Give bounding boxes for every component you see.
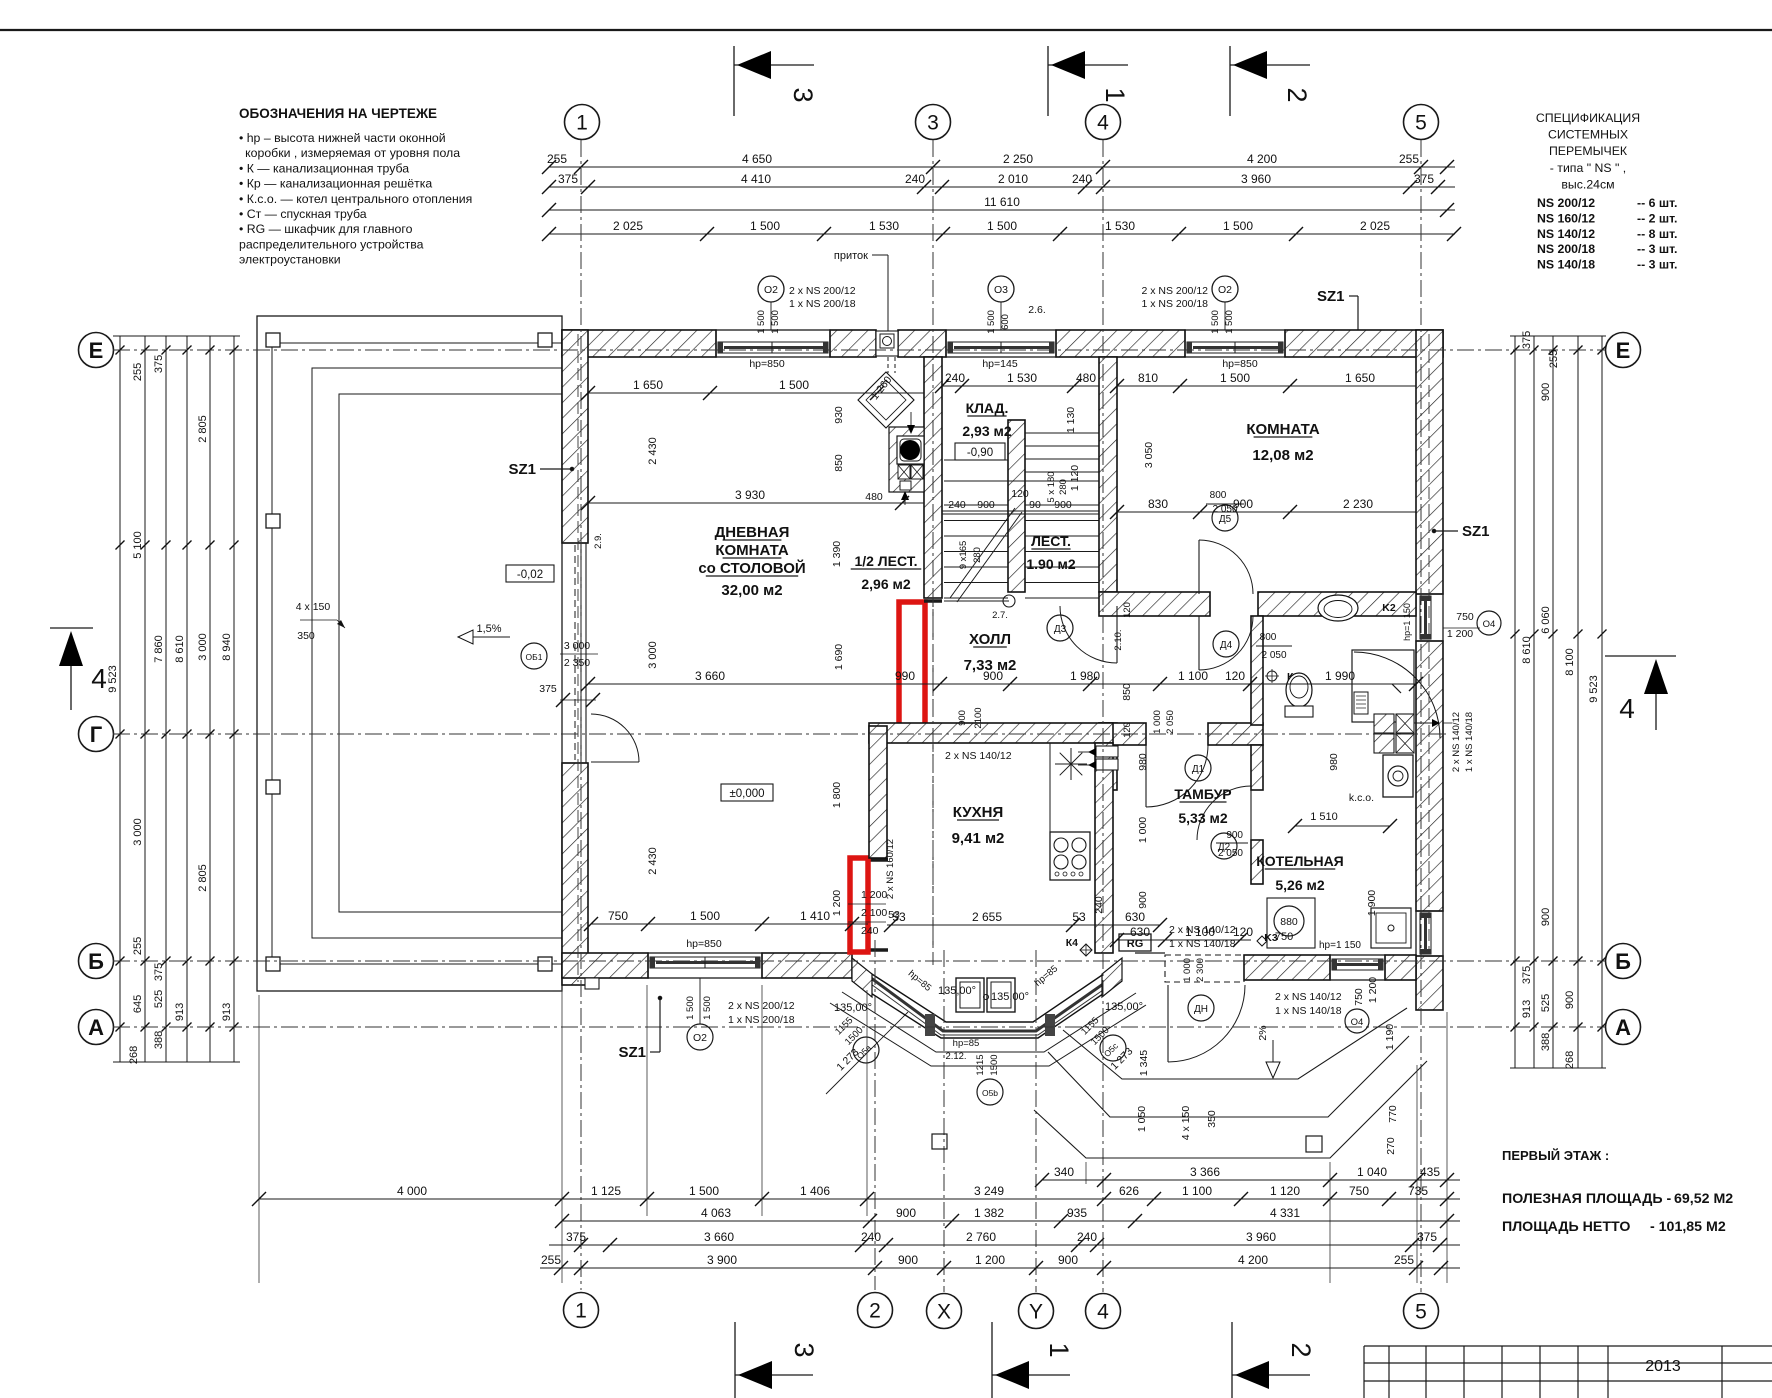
title block table xyxy=(1364,1346,1772,1398)
living room dims bottom xyxy=(584,782,868,950)
svg-text:240: 240 xyxy=(1072,172,1092,186)
svg-text:ЛЕСТ.: ЛЕСТ. xyxy=(1031,533,1071,549)
svg-text:X: X xyxy=(937,1301,951,1324)
bottom dimension row A xyxy=(1042,1179,1460,1181)
svg-text:hp=850: hp=850 xyxy=(749,358,784,370)
svg-text:913: 913 xyxy=(221,1003,233,1021)
window bottom living room xyxy=(648,953,762,978)
svg-text:3: 3 xyxy=(789,1342,819,1357)
svg-text:980: 980 xyxy=(1328,753,1340,771)
svg-text:8 940: 8 940 xyxy=(221,633,233,661)
svg-text:6 060: 6 060 xyxy=(1540,606,1552,634)
room 12 dims xyxy=(1110,358,1416,519)
svg-text:выс.24см: выс.24см xyxy=(1561,177,1614,191)
svg-text:4: 4 xyxy=(91,663,107,694)
svg-text:135,00°: 135,00° xyxy=(938,985,976,997)
svg-text:1: 1 xyxy=(576,112,588,135)
svg-text:СПЕЦИФИКАЦИЯ: СПЕЦИФИКАЦИЯ xyxy=(1536,111,1640,125)
svg-text:750: 750 xyxy=(1275,931,1293,943)
O5a marker xyxy=(826,1012,908,1094)
svg-text:5: 5 xyxy=(1415,112,1427,135)
svg-text:626: 626 xyxy=(1119,1184,1139,1198)
svg-text:-- 8 шт.: -- 8 шт. xyxy=(1637,227,1677,241)
bay outdoor steps xyxy=(830,992,1146,1066)
svg-text:120: 120 xyxy=(1011,488,1029,500)
axis line A horizontal xyxy=(113,1026,1605,1028)
axis line X vertical xyxy=(943,950,945,1292)
O2 marker bottom xyxy=(685,978,795,1050)
svg-text:2 250: 2 250 xyxy=(1003,152,1033,166)
axis bubble 2 bottom xyxy=(858,1293,893,1328)
svg-text:240: 240 xyxy=(1093,896,1105,914)
svg-text:3 000: 3 000 xyxy=(647,641,659,669)
svg-text:• Кр — канализационная решётка: • Кр — канализационная решётка xyxy=(239,177,432,191)
kitchen left wall xyxy=(869,726,887,858)
axis bubble A right xyxy=(1606,1010,1641,1045)
axis line B horizontal xyxy=(113,960,1605,962)
svg-text:375: 375 xyxy=(1417,1230,1437,1244)
svg-text:2.9.: 2.9. xyxy=(593,533,604,549)
axis line G horizontal xyxy=(113,733,1447,735)
svg-text:1 530: 1 530 xyxy=(1007,371,1037,385)
svg-text:900: 900 xyxy=(1540,383,1552,401)
svg-text:375: 375 xyxy=(1521,331,1533,349)
axis line E horizontal xyxy=(113,349,1605,351)
top border rule xyxy=(0,29,1772,31)
svg-text:1 040: 1 040 xyxy=(1357,1165,1387,1179)
boiler pump 880 xyxy=(1257,898,1315,948)
svg-text:ДН: ДН xyxy=(1194,1004,1208,1015)
svg-text:2,96 м2: 2,96 м2 xyxy=(861,576,910,592)
steps note 4x150 xyxy=(296,601,345,642)
bay window walls xyxy=(852,958,1122,1038)
svg-text:4 650: 4 650 xyxy=(742,152,772,166)
svg-text:1 x NS 200/18: 1 x NS 200/18 xyxy=(789,298,856,310)
lintel marker O2 right xyxy=(1141,276,1238,334)
svg-text:• hp – высота нижней части око: • hp – высота нижней части оконной xyxy=(239,131,446,145)
entry door DN xyxy=(1168,958,1245,1062)
svg-text:645: 645 xyxy=(132,995,144,1013)
axis bubble X bottom xyxy=(927,1294,962,1329)
svg-text:4 000: 4 000 xyxy=(397,1184,427,1198)
top dimension row 1 xyxy=(549,166,1455,168)
kitchen counter line xyxy=(1049,743,1051,832)
boiler kco xyxy=(1349,755,1413,804)
svg-text:9 523: 9 523 xyxy=(107,665,119,693)
lintel marker O2 left xyxy=(756,276,856,334)
svg-text:388: 388 xyxy=(1540,1033,1552,1051)
svg-text:О3: О3 xyxy=(994,284,1008,296)
svg-text:3: 3 xyxy=(927,112,939,135)
dashed reference line below wall xyxy=(932,600,934,953)
svg-text:2 430: 2 430 xyxy=(647,847,659,875)
svg-text:hp=1 150: hp=1 150 xyxy=(1402,603,1412,641)
svg-text:1 390: 1 390 xyxy=(831,541,843,567)
svg-text:375: 375 xyxy=(1521,966,1533,984)
stair area dims xyxy=(935,358,1099,569)
svg-text:435: 435 xyxy=(1420,1165,1440,1179)
svg-text:1 120: 1 120 xyxy=(1069,465,1081,491)
extension lines to bottom dimension rows xyxy=(259,985,1447,1283)
svg-text:8 610: 8 610 xyxy=(174,635,186,663)
svg-text:3 050: 3 050 xyxy=(1143,442,1155,468)
section mark 4 left xyxy=(50,628,107,710)
svg-text:Д4: Д4 xyxy=(1220,640,1233,651)
axis bubble 1 top xyxy=(565,105,600,140)
left dimension stack xyxy=(107,336,240,1064)
svg-text:КОМНАТА: КОМНАТА xyxy=(715,542,788,559)
svg-text:Г: Г xyxy=(90,722,103,747)
svg-text:525: 525 xyxy=(153,990,165,1008)
svg-text:3 960: 3 960 xyxy=(1246,1230,1276,1244)
svg-text:2 x NS 200/12: 2 x NS 200/12 xyxy=(728,1000,795,1012)
section mark 4 right xyxy=(1605,656,1676,730)
svg-text:К4: К4 xyxy=(1066,937,1078,949)
lintel specification block xyxy=(1536,111,1678,272)
axis bubble 5 top xyxy=(1404,105,1439,140)
svg-text:1 050: 1 050 xyxy=(1136,1106,1148,1132)
svg-text:5,33 м2: 5,33 м2 xyxy=(1178,810,1227,826)
svg-text:913: 913 xyxy=(174,1003,186,1021)
svg-text:8 610: 8 610 xyxy=(1521,636,1533,664)
svg-text:1 000: 1 000 xyxy=(1182,958,1193,982)
svg-text:1 000: 1 000 xyxy=(1152,710,1163,734)
svg-text:913: 913 xyxy=(1521,1000,1533,1018)
axis bubble E right xyxy=(1606,333,1641,368)
toilet xyxy=(1285,673,1313,717)
svg-text:1 100: 1 100 xyxy=(1178,669,1208,683)
svg-text:NS 140/12: NS 140/12 xyxy=(1537,227,1595,241)
svg-text:Б: Б xyxy=(1615,949,1631,974)
svg-text:255: 255 xyxy=(132,937,144,955)
top dimension row 4 xyxy=(549,233,1455,235)
svg-text:480: 480 xyxy=(1076,371,1096,385)
room label tambour xyxy=(1174,786,1231,826)
svg-text:255: 255 xyxy=(1399,152,1419,166)
red highlight rect 2 xyxy=(850,858,868,952)
svg-text:1 x NS 200/18: 1 x NS 200/18 xyxy=(728,1014,795,1026)
svg-text:240: 240 xyxy=(948,499,966,511)
svg-text:2 x NS 200/12: 2 x NS 200/12 xyxy=(1141,285,1208,297)
svg-text:2 300: 2 300 xyxy=(1195,958,1206,982)
svg-text:1 690: 1 690 xyxy=(833,644,845,670)
axis bubble G left xyxy=(79,717,114,752)
terrace posts xyxy=(266,333,552,971)
kitchen vent asterisk xyxy=(1055,748,1087,780)
svg-text:53: 53 xyxy=(1072,910,1086,924)
svg-text:1 500: 1 500 xyxy=(702,996,713,1020)
svg-text:NS 200/18: NS 200/18 xyxy=(1537,242,1595,256)
SZ1 label right xyxy=(1432,523,1489,540)
pritok duct in wall xyxy=(876,331,898,356)
svg-text:375: 375 xyxy=(1414,172,1434,186)
svg-text:О2: О2 xyxy=(693,1032,707,1044)
svg-text:-0,02: -0,02 xyxy=(517,569,543,581)
top exterior wall xyxy=(562,330,1443,357)
svg-text:750: 750 xyxy=(1456,611,1474,623)
svg-text:4: 4 xyxy=(1619,693,1635,724)
svg-text:1 500: 1 500 xyxy=(690,909,720,923)
slope arrow 1.5% xyxy=(458,623,510,644)
svg-text:2 760: 2 760 xyxy=(966,1230,996,1244)
svg-text:Д3: Д3 xyxy=(1054,624,1067,635)
svg-text:5 100: 5 100 xyxy=(132,531,144,559)
svg-text:1 980: 1 980 xyxy=(1070,669,1100,683)
svg-text:Б: Б xyxy=(88,949,104,974)
svg-text:1 200: 1 200 xyxy=(831,890,843,916)
room label stairs xyxy=(1026,533,1075,572)
svg-text:приток: приток xyxy=(834,250,868,262)
svg-text:255: 255 xyxy=(1548,350,1560,368)
svg-text:Е: Е xyxy=(89,338,104,363)
svg-text:900: 900 xyxy=(1540,908,1552,926)
stair treads right flight xyxy=(1025,433,1099,598)
svg-text:2100: 2100 xyxy=(973,707,984,728)
svg-text:5: 5 xyxy=(1415,1301,1427,1324)
svg-text:2.7.: 2.7. xyxy=(992,610,1008,621)
room label half stairs xyxy=(851,553,922,592)
svg-text:900: 900 xyxy=(1226,830,1243,841)
svg-text:Е: Е xyxy=(1616,338,1631,363)
svg-text:3 366: 3 366 xyxy=(1190,1165,1220,1179)
svg-text:О2: О2 xyxy=(1218,284,1232,296)
kitchen top wall xyxy=(869,723,1113,743)
svg-text:3 660: 3 660 xyxy=(704,1230,734,1244)
svg-text:850: 850 xyxy=(1121,683,1133,701)
svg-text:2 x NS 200/12: 2 x NS 200/12 xyxy=(789,285,856,297)
stair break line xyxy=(944,508,1022,607)
svg-text:СИСТЕМНЫХ: СИСТЕМНЫХ xyxy=(1548,128,1628,142)
svg-text:4 x 150: 4 x 150 xyxy=(296,601,331,613)
svg-text:9 523: 9 523 xyxy=(1588,675,1600,703)
right exterior wall xyxy=(1416,330,1443,1010)
level mark -0.02 xyxy=(506,565,554,582)
svg-text:со СТОЛОВОЙ: со СТОЛОВОЙ xyxy=(698,559,805,577)
svg-text:900: 900 xyxy=(1233,497,1253,511)
svg-text:8 100: 8 100 xyxy=(1564,648,1576,676)
svg-text:ТАМБУР: ТАМБУР xyxy=(1174,786,1231,802)
svg-text:990: 990 xyxy=(895,669,915,683)
axis line 2 vertical xyxy=(874,940,876,1290)
axis line 4 vertical xyxy=(1102,140,1104,1292)
section mark 2 top xyxy=(1230,46,1312,116)
svg-text:255: 255 xyxy=(547,152,567,166)
svg-text:4 200: 4 200 xyxy=(1247,152,1277,166)
svg-text:2 025: 2 025 xyxy=(613,219,643,233)
svg-text:1 120: 1 120 xyxy=(1270,1184,1300,1198)
svg-text:Y: Y xyxy=(1029,1301,1043,1324)
svg-text:3 000: 3 000 xyxy=(132,818,144,846)
svg-text:3 000: 3 000 xyxy=(564,640,590,652)
svg-text:2: 2 xyxy=(869,1300,881,1323)
svg-text:1 900: 1 900 xyxy=(1366,890,1378,916)
svg-text:2 230: 2 230 xyxy=(1343,497,1373,511)
axis line 1 vertical xyxy=(580,140,582,1290)
svg-text:900: 900 xyxy=(1058,1253,1078,1267)
svg-text:1500: 1500 xyxy=(989,1054,1000,1075)
section mark 2 bottom xyxy=(1232,1322,1316,1398)
porch post xyxy=(1306,1136,1322,1152)
svg-text:525: 525 xyxy=(1540,994,1552,1012)
svg-text:1 200: 1 200 xyxy=(861,889,887,901)
O5b marker xyxy=(975,1054,1003,1105)
tambour south closure dashed xyxy=(1135,953,1244,982)
tambour/boiler divider wall xyxy=(1251,616,1263,884)
boiler washbasin xyxy=(1371,908,1411,948)
svg-text:255: 255 xyxy=(1394,1253,1414,1267)
svg-text:388: 388 xyxy=(153,1031,165,1049)
interior wall below room 12.08 xyxy=(1099,592,1416,616)
axis bubble 3 top xyxy=(916,105,951,140)
svg-text:2 655: 2 655 xyxy=(972,910,1002,924)
svg-text:- 101,85 М2: - 101,85 М2 xyxy=(1650,1219,1726,1235)
svg-text:600: 600 xyxy=(1000,314,1011,330)
svg-text:электроустановки: электроустановки xyxy=(239,253,341,267)
bottom dimension row C xyxy=(562,1220,1460,1222)
bay angle labels xyxy=(834,963,1143,1062)
svg-text:4: 4 xyxy=(1097,112,1109,135)
svg-text:2 350: 2 350 xyxy=(564,657,590,669)
svg-text:7 860: 7 860 xyxy=(153,635,165,663)
svg-text:- типа " NS " ,: - типа " NS " , xyxy=(1550,161,1626,175)
svg-text:375: 375 xyxy=(566,1230,586,1244)
axis line 3 vertical xyxy=(932,140,934,965)
top dimension row 2 xyxy=(549,186,1455,188)
svg-text:630: 630 xyxy=(1130,925,1150,939)
svg-text:3: 3 xyxy=(788,87,818,102)
svg-text:135,00°: 135,00° xyxy=(991,991,1029,1003)
bath sink xyxy=(1318,595,1396,621)
svg-text:1 530: 1 530 xyxy=(1105,219,1135,233)
svg-text:КЛАД.: КЛАД. xyxy=(966,400,1009,416)
svg-text:NS 200/12: NS 200/12 xyxy=(1537,196,1595,210)
svg-text:4 x 150: 4 x 150 xyxy=(1180,1106,1192,1141)
axis bubble 4 top xyxy=(1086,105,1121,140)
door D5 room xyxy=(1199,490,1253,594)
svg-text:1215: 1215 xyxy=(975,1054,986,1075)
room label boiler xyxy=(1256,853,1344,893)
kitchen sink in bay xyxy=(956,978,1015,1012)
section mark 3 top xyxy=(734,46,818,116)
svg-text:135,00°: 135,00° xyxy=(834,1002,872,1014)
svg-text:12,08 м2: 12,08 м2 xyxy=(1252,447,1313,464)
svg-text:9 x165: 9 x165 xyxy=(958,541,969,570)
svg-text:268: 268 xyxy=(1564,1051,1576,1069)
svg-text:2 805: 2 805 xyxy=(197,864,209,892)
svg-text:hp=85: hp=85 xyxy=(953,1038,980,1049)
svg-text:Д5: Д5 xyxy=(1219,514,1232,525)
svg-text:ПЕРЕМЫЧЕК: ПЕРЕМЫЧЕК xyxy=(1549,144,1628,158)
svg-text:900: 900 xyxy=(983,669,1003,683)
svg-text:2 050: 2 050 xyxy=(1218,848,1243,859)
svg-text:375: 375 xyxy=(153,355,165,373)
legend text block xyxy=(239,106,472,267)
porch dims rotated xyxy=(1108,977,1399,1155)
svg-text:480: 480 xyxy=(865,491,883,503)
svg-text:О5b: О5b xyxy=(982,1088,998,1098)
svg-text:630: 630 xyxy=(1125,910,1145,924)
svg-text:1 800: 1 800 xyxy=(831,782,843,808)
kitchen dims xyxy=(848,707,1167,937)
interior wall right of stair xyxy=(1099,357,1117,592)
red highlight rect 1 xyxy=(899,602,925,727)
svg-text:240: 240 xyxy=(861,925,879,937)
svg-text:ОБОЗНАЧЕНИЯ НА ЧЕРТЕЖЕ: ОБОЗНАЧЕНИЯ НА ЧЕРТЕЖЕ xyxy=(239,106,437,121)
SZ1 label left xyxy=(508,461,573,478)
svg-text:9,41 м2: 9,41 м2 xyxy=(952,830,1005,847)
svg-text:900: 900 xyxy=(957,710,968,726)
svg-text:750: 750 xyxy=(1353,988,1365,1006)
svg-text:3 000: 3 000 xyxy=(197,633,209,661)
svg-text:375: 375 xyxy=(539,683,557,695)
svg-text:1 410: 1 410 xyxy=(800,909,830,923)
window right upper O4 xyxy=(1416,594,1443,641)
svg-text:1 500: 1 500 xyxy=(987,219,1017,233)
room label storeroom xyxy=(962,400,1011,439)
svg-text:2 x NS 140/12: 2 x NS 140/12 xyxy=(945,750,1012,762)
svg-text:-- 3 шт.: -- 3 шт. xyxy=(1637,242,1677,256)
svg-text:280: 280 xyxy=(972,547,983,563)
svg-text:SZ1: SZ1 xyxy=(1317,288,1345,305)
svg-text:• RG — шкафчик для главного: • RG — шкафчик для главного xyxy=(239,222,413,236)
svg-text:69,52 М2: 69,52 М2 xyxy=(1674,1191,1733,1207)
svg-text:1 382: 1 382 xyxy=(974,1206,1004,1220)
section mark 1 bottom xyxy=(992,1322,1074,1398)
svg-text:240: 240 xyxy=(1077,1230,1097,1244)
svg-text:255: 255 xyxy=(541,1253,561,1267)
svg-text:1 x NS 200/18: 1 x NS 200/18 xyxy=(1141,298,1208,310)
svg-text:3 900: 3 900 xyxy=(707,1253,737,1267)
living room dims top xyxy=(581,358,924,472)
svg-text:КУХНЯ: КУХНЯ xyxy=(953,804,1003,821)
svg-text:1/2 ЛЕСТ.: 1/2 ЛЕСТ. xyxy=(854,553,917,569)
svg-text:А: А xyxy=(88,1015,104,1040)
door D3 hall xyxy=(1047,606,1117,663)
svg-text:Д1: Д1 xyxy=(1192,764,1205,775)
svg-text:900: 900 xyxy=(977,499,995,511)
svg-text:hp=850: hp=850 xyxy=(686,938,721,950)
svg-text:О2: О2 xyxy=(764,284,778,296)
svg-text:k.c.o.: k.c.o. xyxy=(1349,792,1374,804)
svg-text:375: 375 xyxy=(558,172,578,186)
svg-text:2.12.: 2.12. xyxy=(945,1051,966,1062)
svg-text:2.10.: 2.10. xyxy=(1113,629,1124,650)
svg-text:750: 750 xyxy=(1349,1184,1369,1198)
svg-text:135,00°: 135,00° xyxy=(1105,1001,1143,1013)
svg-text:2 x NS 140/12: 2 x NS 140/12 xyxy=(1275,991,1342,1003)
fireplace block xyxy=(889,412,924,505)
bottom exterior wall right / boiler room xyxy=(1244,955,1416,980)
svg-text:1 130: 1 130 xyxy=(1065,407,1077,433)
svg-text:ПЕРВЫЙ ЭТАЖ :: ПЕРВЫЙ ЭТАЖ : xyxy=(1502,1148,1609,1163)
bottom dimension row E xyxy=(540,1267,1460,1269)
svg-text:• К — канализационная труба: • К — канализационная труба xyxy=(239,161,409,175)
section mark 1 top xyxy=(1048,46,1130,116)
svg-text:3 249: 3 249 xyxy=(974,1184,1004,1198)
axis bubble 4 bottom xyxy=(1086,1294,1121,1329)
svg-text:4 410: 4 410 xyxy=(741,172,771,186)
terrace door leaf and swing xyxy=(591,714,639,762)
NS note porch xyxy=(1275,991,1369,1033)
axis line Y vertical xyxy=(1035,950,1037,1292)
svg-text:2.6.: 2.6. xyxy=(1028,304,1046,316)
boiler flue blocks xyxy=(1288,714,1440,833)
svg-text:NS 140/18: NS 140/18 xyxy=(1537,258,1595,272)
svg-text:3 930: 3 930 xyxy=(735,488,765,502)
svg-text:900: 900 xyxy=(1054,499,1072,511)
axis bubble 5 bottom xyxy=(1404,1294,1439,1329)
shower corner xyxy=(1352,650,1440,738)
